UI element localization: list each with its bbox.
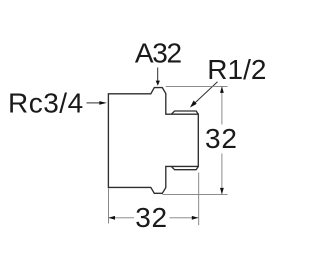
svg-text:R1/2: R1/2 <box>207 54 266 85</box>
svg-text:32: 32 <box>205 123 238 154</box>
dimension line vertical 32 <box>221 86 223 124</box>
extension line bottom <box>163 193 228 195</box>
thread crest bottom <box>171 166 198 169</box>
leader A32 <box>157 68 159 82</box>
dimension line bottom 32 <box>109 217 135 219</box>
thread crest top <box>171 111 198 114</box>
extension line right for bottom 32 <box>198 173 200 226</box>
leader Rc3/4 <box>87 102 101 104</box>
leader R1/2 <box>194 82 218 105</box>
svg-text:A32: A32 <box>135 38 182 69</box>
extension line left for bottom 32 <box>108 188 110 223</box>
fitting body outline <box>108 88 198 194</box>
extension line top <box>166 85 228 87</box>
svg-text:32: 32 <box>135 202 168 233</box>
svg-text:Rc3/4: Rc3/4 <box>8 88 84 119</box>
